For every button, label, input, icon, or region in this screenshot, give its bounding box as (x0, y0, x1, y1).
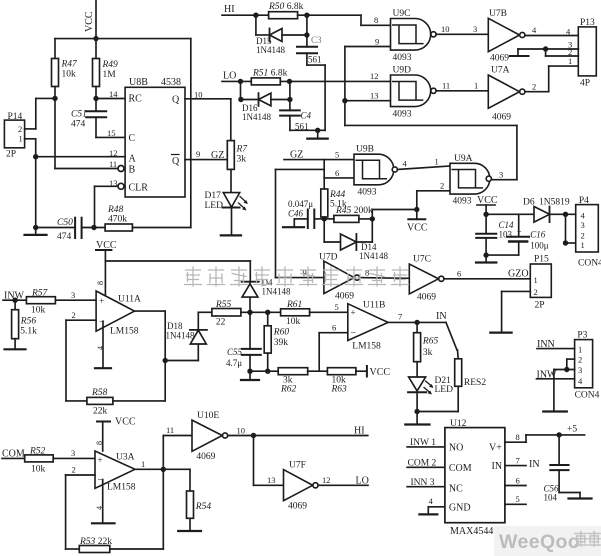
svg-text:CLR: CLR (129, 183, 149, 194)
junction C46-R44-R45 (322, 216, 327, 221)
svg-text:9: 9 (196, 149, 200, 159)
inverter U10E (192, 411, 228, 462)
wire R44 bottom (323, 217, 325, 219)
junction D18 anode node (163, 358, 168, 363)
svg-text:3: 3 (71, 290, 75, 300)
svg-text:10k: 10k (31, 306, 46, 316)
svg-text:+: + (98, 455, 103, 465)
svg-text:10k: 10k (286, 317, 301, 327)
wire COM pin2 stub (407, 466, 445, 468)
junction VCC rail (93, 36, 98, 41)
svg-text:1: 1 (581, 240, 585, 250)
svg-text:104: 104 (544, 493, 558, 503)
svg-text:3: 3 (499, 170, 503, 180)
wire C50 right (82, 227, 106, 229)
wire CLR corner (95, 186, 118, 227)
svg-text:11: 11 (442, 81, 450, 91)
svg-text:4069: 4069 (417, 293, 436, 303)
svg-text:R55: R55 (215, 300, 232, 310)
svg-text:VCC: VCC (84, 11, 95, 32)
wire INW pin1 stub (407, 446, 445, 448)
inverter U7F (284, 461, 319, 512)
diode D16 (242, 93, 271, 122)
svg-text:R54: R54 (195, 502, 212, 512)
resistor R62 (278, 368, 308, 395)
capacitor C46 (288, 199, 324, 228)
junction D15-C3 (304, 32, 309, 37)
NAND gate U9D (391, 66, 437, 120)
svg-text:6: 6 (335, 168, 339, 178)
svg-text:U12: U12 (450, 419, 467, 429)
wire P14 pin1 down (25, 139, 36, 228)
wire U3A V- ground (92, 480, 115, 524)
svg-text:IN: IN (492, 461, 503, 472)
svg-text:2: 2 (72, 465, 76, 475)
junction INW-R56 (12, 298, 17, 303)
inverter U7D (319, 253, 360, 302)
inverter U7C (409, 255, 444, 303)
svg-text:U3A: U3A (116, 453, 135, 463)
svg-text:R47: R47 (61, 60, 79, 70)
wire U11B output to IN (388, 321, 446, 323)
wire R48 right to feedback vertical (132, 39, 190, 228)
svg-text:8: 8 (516, 432, 520, 442)
svg-text:2: 2 (72, 310, 76, 320)
svg-text:4093: 4093 (393, 53, 412, 63)
svg-text:LO: LO (356, 476, 369, 487)
svg-text:10k: 10k (31, 465, 46, 475)
svg-text:LM158: LM158 (352, 342, 381, 352)
svg-text:U7D: U7D (319, 253, 338, 263)
svg-text:R62: R62 (280, 385, 297, 395)
svg-text:P13: P13 (580, 18, 595, 28)
NAND gate U9B (354, 145, 397, 198)
capacitor C50 (57, 218, 82, 242)
resistor R45 (324, 206, 373, 222)
svg-text:NC: NC (449, 484, 463, 495)
svg-text:R57: R57 (31, 289, 49, 299)
wire D15 left leg (256, 15, 270, 35)
svg-text:C4: C4 (301, 111, 312, 121)
resistor R61 (281, 300, 310, 327)
wire D16 left leg (241, 81, 259, 99)
svg-text:R7: R7 (236, 145, 249, 155)
svg-text:R60: R60 (273, 328, 290, 338)
inverter U7B (488, 9, 525, 64)
svg-text:1N4148: 1N4148 (256, 45, 285, 55)
svg-text:8: 8 (365, 268, 369, 278)
svg-text:1: 1 (435, 157, 439, 167)
svg-text:10: 10 (441, 24, 450, 34)
connector P4 (576, 196, 601, 269)
svg-text:−: − (351, 328, 357, 339)
svg-text:U8B: U8B (129, 77, 148, 88)
svg-text:561: 561 (308, 55, 322, 65)
svg-text:22: 22 (216, 318, 226, 328)
wire U7A out to P13 pin1 (525, 66, 578, 92)
svg-text:1: 1 (534, 275, 538, 285)
svg-text:5: 5 (516, 494, 520, 504)
supply VCC mid-left stub (96, 240, 117, 296)
svg-text:U9B: U9B (356, 145, 374, 155)
svg-text:U7C: U7C (413, 255, 431, 265)
svg-text:U11B: U11B (363, 301, 385, 311)
wire IN diagonal to RES2 (446, 322, 457, 350)
svg-text:VCC: VCC (115, 417, 136, 428)
junction U3A out (161, 467, 166, 472)
svg-text:B: B (129, 165, 136, 176)
junction U7F branch (251, 433, 256, 438)
svg-text:D6: D6 (523, 198, 535, 208)
svg-text:CON4: CON4 (578, 259, 601, 269)
wire R47 top (54, 39, 56, 59)
wire INW to P3 pin4 (537, 378, 575, 380)
svg-text:1N5819: 1N5819 (539, 198, 570, 208)
wire D16 right leg (271, 81, 290, 110)
svg-text:C46: C46 (288, 209, 304, 219)
wire IN pin7 stub (505, 465, 526, 467)
capacitor C3 561 (297, 35, 322, 65)
svg-text:4069: 4069 (335, 292, 354, 302)
junction ground rail (483, 252, 488, 257)
svg-text:5: 5 (335, 302, 339, 312)
junction P4 pin4 (563, 212, 568, 217)
op-amp U3A (95, 441, 136, 510)
resistor R56 (12, 300, 37, 339)
wire B from R47 node to pin11 (55, 168, 118, 170)
wire GZ to U9B pin5 (284, 160, 354, 189)
supply VCC tick mid (407, 210, 428, 234)
wire VCC to D4 top (105, 261, 250, 282)
node VCC top rail (84, 0, 96, 39)
junction R47 bottom (52, 96, 57, 101)
wire LO (222, 80, 251, 82)
svg-text:4093: 4093 (358, 188, 377, 198)
svg-text:2: 2 (440, 181, 444, 191)
svg-text:+: + (351, 308, 356, 318)
svg-text:IN: IN (529, 459, 540, 470)
svg-text:LED: LED (435, 385, 454, 395)
svg-text:22k: 22k (93, 407, 108, 417)
wire D21 bottom (416, 392, 418, 411)
wire U9B pin6 (324, 177, 354, 179)
svg-text:+: + (99, 296, 104, 306)
svg-text:8: 8 (95, 441, 104, 445)
wire R45 right up-step (359, 210, 417, 219)
junction R50-right (304, 13, 309, 18)
wire C3 bottom to C4 ground node (307, 53, 325, 130)
wire R52 to U3A pin3 (53, 457, 95, 459)
svg-text:4538: 4538 (161, 77, 181, 88)
IC U12 MAX4544 (445, 419, 505, 537)
svg-text:0.047μ: 0.047μ (288, 199, 313, 209)
inverter U7A (488, 66, 525, 123)
svg-text:4P: 4P (580, 79, 590, 89)
svg-text:1: 1 (19, 134, 23, 144)
op-amp U11A (96, 281, 141, 350)
wire pin6 stub (505, 485, 526, 487)
svg-text:4069: 4069 (490, 54, 509, 64)
svg-text:1N4148: 1N4148 (262, 287, 291, 297)
svg-text:COM: COM (449, 463, 472, 474)
svg-text:6: 6 (457, 269, 461, 279)
svg-text:LED: LED (205, 201, 224, 211)
svg-text:R49: R49 (102, 60, 119, 70)
diode D4 (242, 278, 291, 313)
resistor R60 (264, 312, 289, 371)
connector P15 (530, 255, 551, 311)
svg-text:11: 11 (166, 425, 174, 435)
wire U11A V- ground (95, 321, 111, 368)
wire D6 to P4 (550, 213, 576, 215)
svg-text:R56: R56 (20, 317, 37, 327)
wire Qbar pin9 GZ stub (185, 159, 226, 161)
watermark WeeQoo (494, 526, 601, 556)
svg-text:R51 6.8k: R51 6.8k (252, 69, 288, 79)
svg-text:HI: HI (224, 4, 235, 15)
svg-text:1: 1 (568, 56, 572, 66)
junction VCC rail right (483, 212, 488, 217)
svg-text:1N4148: 1N4148 (242, 112, 271, 122)
wire INN pin3 stub (407, 486, 445, 488)
svg-text:4093: 4093 (453, 197, 472, 207)
wire D15 right leg (282, 15, 307, 47)
diode D15 (256, 29, 285, 56)
svg-text:U9D: U9D (393, 66, 412, 76)
svg-text:D18: D18 (167, 321, 183, 331)
wire ground rail C14-C16 (486, 254, 519, 256)
svg-text:2P: 2P (535, 301, 545, 311)
svg-text:474: 474 (71, 120, 86, 130)
ground left column (25, 228, 47, 235)
resistor R63 (327, 368, 356, 395)
wire U7B out to P13 pin4 (525, 35, 578, 37)
svg-text:9: 9 (303, 268, 307, 278)
bubble pin11 B (118, 166, 124, 172)
svg-text:R61: R61 (286, 300, 302, 310)
svg-text:GZO: GZO (508, 269, 529, 280)
diode D6 (523, 198, 570, 223)
svg-text:3k: 3k (237, 155, 247, 165)
wire rail to D6 (486, 213, 534, 215)
junction U9A pin2 node (414, 207, 419, 212)
resistor R44 (321, 189, 347, 217)
svg-text:R45 200k: R45 200k (335, 206, 373, 216)
svg-text:4069: 4069 (196, 452, 215, 462)
svg-text:13: 13 (370, 91, 379, 101)
wire U11A pin2 feedback (66, 320, 96, 401)
supply VCC right (477, 195, 498, 214)
svg-text:11: 11 (109, 159, 117, 169)
NAND gate U9A (450, 154, 491, 207)
svg-text:474: 474 (57, 232, 72, 242)
ground C55 (241, 371, 259, 380)
svg-text:C14: C14 (499, 220, 515, 230)
junction R60 node (265, 310, 270, 315)
svg-text:Q: Q (172, 156, 180, 167)
svg-text:Q: Q (172, 95, 180, 106)
svg-text:U7A: U7A (491, 66, 510, 76)
svg-text:10k: 10k (62, 70, 77, 80)
svg-text:2: 2 (18, 124, 22, 134)
svg-text:4069: 4069 (288, 502, 307, 512)
wire R49 top (95, 39, 97, 59)
LED D21 (408, 376, 453, 395)
svg-text:RES2: RES2 (464, 378, 486, 388)
svg-text:2: 2 (578, 355, 582, 365)
svg-text:3: 3 (473, 24, 477, 34)
wire pin5 stub (505, 503, 526, 505)
wire U10E out to HI (228, 435, 368, 437)
wire U9B out to U9A pin1 (397, 166, 450, 170)
junction P4 pin1 (563, 240, 568, 245)
svg-text:+: + (517, 227, 522, 236)
wire A to pin12 (36, 156, 125, 158)
resistor R54 (187, 469, 212, 518)
junction D21-RES2 (414, 409, 419, 414)
svg-text:7: 7 (516, 456, 520, 466)
wire U9D out to U7A (436, 90, 488, 92)
svg-text:R48: R48 (107, 205, 124, 215)
resistor R58 (87, 388, 113, 417)
wire D14 loop (324, 219, 372, 242)
svg-text:−: − (99, 317, 105, 328)
wire GND pin4 (419, 507, 445, 515)
svg-text:+5: +5 (567, 425, 577, 435)
wire INN to P3 pin1 (537, 348, 575, 350)
wire to U9D pin13 (345, 100, 391, 102)
wire D17 bottom (231, 208, 233, 236)
resistor R49 (93, 59, 119, 87)
svg-text:R58: R58 (91, 388, 108, 398)
svg-text:VCC: VCC (407, 223, 428, 234)
junction C56 (556, 432, 561, 437)
wire U9A-output net vertical x345 (345, 47, 517, 180)
junction A node (33, 154, 38, 159)
svg-text:3: 3 (578, 365, 582, 375)
wire P14 pin2 to R47 node (25, 98, 55, 128)
junction D16-C4 (287, 97, 292, 102)
wire INW (3, 299, 26, 301)
junction R49 bottom (93, 96, 98, 101)
junction R60 bottom (265, 369, 270, 374)
wire R53 right to output vertical (110, 436, 164, 550)
wire R50 right to U9C pin8 (298, 15, 391, 25)
svg-text:4069: 4069 (492, 113, 511, 123)
wire R65 to D21 (416, 362, 418, 377)
wire to U9A pin2 (417, 191, 450, 210)
svg-text:P14: P14 (8, 112, 23, 122)
wire U7C out to P15 (444, 278, 530, 280)
wire R61 to U11B pin5 (310, 311, 348, 313)
wire U3A pin2 feedback (66, 475, 95, 549)
junction HI-D15 (253, 13, 258, 18)
svg-text:2: 2 (534, 287, 538, 297)
wire U11B pin6 branch (319, 333, 348, 372)
svg-text:C55: C55 (227, 347, 243, 357)
svg-text:U9C: U9C (393, 9, 411, 19)
svg-text:IN: IN (436, 311, 447, 322)
svg-text:V+: V+ (489, 443, 502, 454)
wire RES2 bottom (417, 386, 458, 411)
wire U9C out to U7B (436, 33, 488, 35)
junction D4-C55 node (247, 310, 252, 315)
wire GZ branch down to U7D (276, 169, 325, 277)
ground D17 (221, 234, 241, 236)
svg-text:U9A: U9A (454, 154, 473, 164)
svg-text:8: 8 (374, 15, 378, 25)
svg-text:8: 8 (96, 281, 105, 285)
ground C4 (307, 130, 327, 138)
wire C46 left to ground (283, 219, 308, 227)
svg-text:C51: C51 (71, 110, 87, 120)
connector P14 (4, 112, 24, 160)
capacitor C14 (476, 214, 514, 255)
capacitor C4 (280, 110, 311, 131)
LED D17 (205, 191, 248, 211)
wire P15 pin2 to ground (490, 291, 530, 332)
svg-text:P4: P4 (579, 196, 589, 206)
watermark center (185, 267, 409, 286)
svg-text:R65: R65 (422, 337, 439, 347)
wire P13 pin3 stub (510, 49, 578, 56)
junction LO-D16 (238, 79, 243, 84)
svg-text:1N4148: 1N4148 (359, 251, 388, 261)
svg-text:P3: P3 (577, 331, 587, 341)
capacitor C51 (71, 110, 106, 130)
resistor R65 (414, 322, 439, 361)
svg-text:9: 9 (375, 37, 379, 47)
svg-text:COM 2: COM 2 (408, 459, 437, 469)
svg-text:LO: LO (223, 71, 236, 82)
ground D21 (405, 412, 429, 425)
resistor RES2 (455, 350, 487, 388)
resistor R55 (212, 300, 241, 328)
junction R65 (414, 320, 419, 325)
resistor R47 (52, 59, 79, 87)
wire R58 right to output vertical (113, 400, 165, 402)
junction C4 ground node (315, 128, 320, 133)
svg-text:3: 3 (581, 220, 585, 230)
svg-text:12: 12 (322, 475, 331, 485)
wire V+ pin8 to +5 (505, 435, 585, 442)
svg-text:10: 10 (237, 426, 246, 436)
wire R47 bottom (54, 87, 56, 169)
svg-text:R53 22k: R53 22k (79, 537, 112, 547)
svg-text:13: 13 (267, 475, 276, 485)
wire VCC rail horizontal (55, 38, 191, 40)
capacitor C55 (226, 312, 261, 371)
svg-text:3k: 3k (423, 348, 433, 358)
capacitor C56 (544, 435, 569, 503)
junction C55 bottom (247, 369, 252, 374)
resistor R48 (105, 205, 132, 231)
wire U7F out to LO (318, 484, 368, 486)
svg-text:1: 1 (578, 345, 582, 355)
svg-text:14: 14 (109, 89, 118, 99)
svg-text:C: C (129, 133, 136, 144)
wire C51 bottom to pin15 (96, 117, 125, 137)
svg-text:1: 1 (474, 81, 478, 91)
wire COM (2, 457, 25, 459)
svg-text:INN 3: INN 3 (411, 478, 435, 488)
resistor R50 (268, 2, 304, 19)
junction R51-right (287, 79, 292, 84)
svg-text:GND: GND (449, 503, 471, 514)
svg-text:5: 5 (335, 150, 339, 160)
svg-text:6: 6 (332, 323, 336, 333)
svg-text:D17: D17 (205, 191, 222, 201)
